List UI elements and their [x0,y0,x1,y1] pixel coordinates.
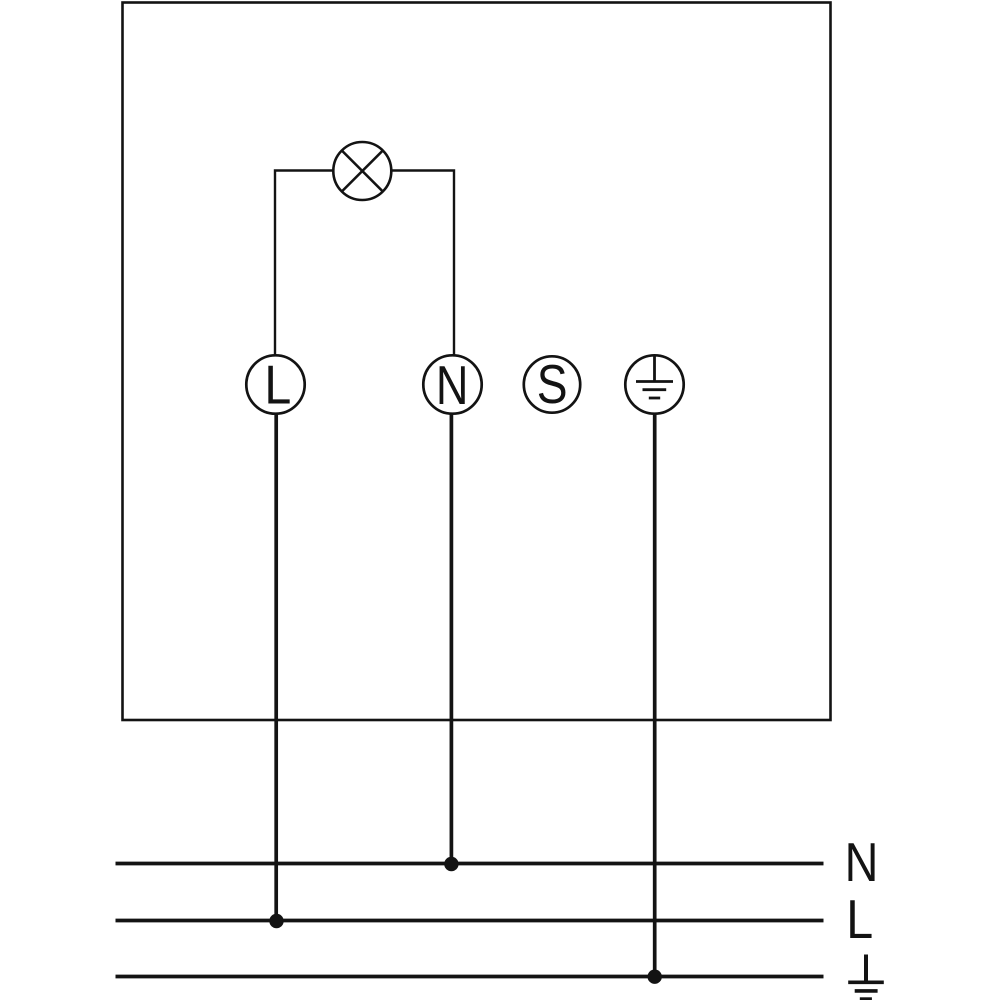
svg-text:N: N [845,832,879,893]
junction dot N [444,857,458,871]
wire PE down to PE bus [653,414,657,977]
bus N [116,862,824,866]
device enclosure box [123,3,831,721]
svg-text:L: L [846,888,873,950]
bus L [116,919,824,923]
lamp E1 [333,142,391,200]
terminal PE [625,355,683,413]
wire lamp left to corner [275,171,334,356]
terminal S [524,356,580,412]
svg-text:S: S [537,353,568,415]
junction dot PE [648,970,662,984]
svg-text:N: N [436,354,469,416]
terminal N [423,355,481,413]
junction dot L [269,914,283,928]
terminal L [246,355,304,413]
bus PE [116,975,824,979]
wire lamp right to corner [392,171,455,356]
svg-text:L: L [264,354,291,416]
earth symbol bottom right [848,955,884,1000]
wire L down to L bus [274,414,278,921]
wire N down to N bus [450,414,454,864]
